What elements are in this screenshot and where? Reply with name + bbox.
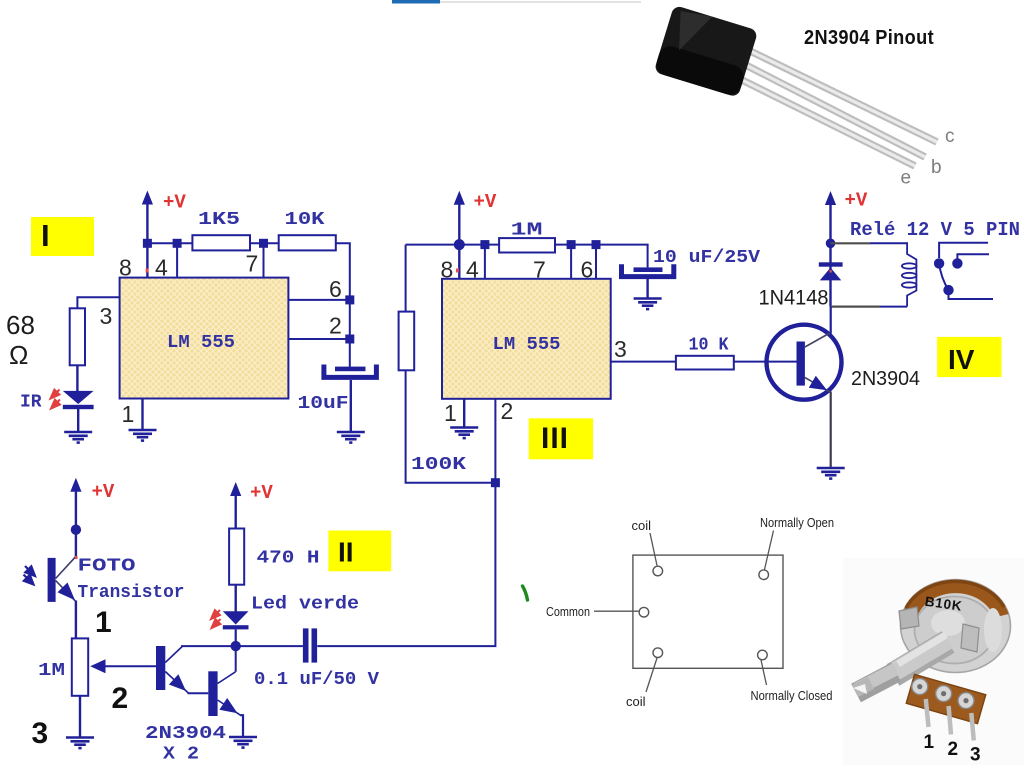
svg-text:10K: 10K [285,210,325,230]
svg-text:Relé 12 V 5 PIN: Relé 12 V 5 PIN [850,219,1020,241]
IR emission arrows [51,390,61,409]
label Normally Closed [751,660,833,703]
svg-text:1K5: 1K5 [198,210,240,230]
power +V section I [142,191,187,278]
svg-text:3: 3 [614,336,627,362]
wire corner to cap 10uF25V [647,245,649,268]
wire Q1 emitter to Q2 base [188,692,209,694]
relay coil bottom wire [831,306,908,308]
svg-text:+V: +V [163,192,186,214]
wire 1M to corner [555,244,649,246]
power +V section III [454,191,497,279]
label box IV [937,337,1001,377]
svg-text:4: 4 [466,257,479,283]
red mark pin8 I [146,269,149,273]
relay contacts [934,243,993,299]
label Normally Open [760,515,834,570]
wire cap to ground I [350,380,352,432]
svg-text:3: 3 [32,717,49,750]
svg-text:2: 2 [112,682,129,715]
svg-text:2N3904 Pinout: 2N3904 Pinout [804,27,934,49]
svg-text:3: 3 [100,303,113,329]
resistor 68 ohm [6,308,85,370]
svg-text:c: c [945,126,955,147]
svg-text:2: 2 [948,739,959,760]
relay coil [902,242,917,306]
transistor Q1 (darlington) [156,646,189,694]
node IV supply (round) [826,239,836,249]
svg-text:+V: +V [845,190,868,212]
relay pinout diagram [633,555,783,668]
svg-text:LM 555: LM 555 [493,335,561,355]
svg-text:III: III [541,422,569,455]
svg-text:Normally Open: Normally Open [760,515,834,530]
wire 470H to LED verde [234,585,236,612]
LED verde [223,595,359,630]
label box I [31,217,94,256]
power +V section IV [825,190,868,307]
relay hole coil bottom [653,648,663,658]
resistor 10 K [676,336,734,370]
label box III [529,418,593,459]
wire 1K5 to 10K [250,242,279,244]
op-amp U1 LM 555 [120,278,289,399]
svg-text:6: 6 [329,276,342,302]
capacitor 0.1 uF/50 V [254,628,379,690]
LED verde emission arrows [211,610,221,628]
ground Q-IV [817,468,845,479]
ground IR LED [64,432,92,443]
node pin2-100K junction [491,478,500,487]
node I-c (pin 7) [259,239,268,278]
wire pot to ground [79,696,81,737]
wire LED to ground [77,409,79,432]
svg-text:Normally Closed: Normally Closed [751,688,833,703]
svg-text:1: 1 [444,400,457,426]
svg-text:8: 8 [441,257,454,283]
relay coil top wire [831,242,908,244]
label Common [546,604,639,619]
svg-text:0.1 uF/50 V: 0.1 uF/50 V [254,670,379,690]
wire top rail I [147,242,192,244]
capacitor 10uF [298,365,377,415]
svg-text:470 H: 470 H [257,549,320,569]
node LED junction (round) [231,641,241,651]
svg-text:I: I [41,218,50,253]
node II supply (round) [71,525,81,535]
power +V section II left [70,478,115,557]
relay hole common [639,607,649,617]
svg-text:Common: Common [546,604,590,619]
wire Q1 collector rail [181,645,303,647]
node III-a (round) [454,239,465,250]
svg-text:4: 4 [155,255,168,281]
svg-text:coil: coil [626,694,646,709]
wire LED verde to node [235,629,237,646]
wire pin 3 III to 10K [611,361,676,363]
label coil bottom [626,658,657,709]
svg-text:7: 7 [533,257,546,283]
svg-text:+V: +V [250,482,273,504]
svg-text:6: 6 [581,257,594,283]
svg-text:2N3904: 2N3904 [145,724,226,744]
svg-text:+V: +V [92,481,115,503]
LED IR [20,391,94,413]
svg-text:X 2: X 2 [163,745,199,765]
svg-text:100K: 100K [411,455,466,475]
svg-text:8: 8 [119,255,132,281]
top toolbar bar [392,0,641,4]
resistor 470 H [229,529,319,585]
label coil top [632,518,658,566]
power +V section II right [230,482,273,529]
svg-text:1M: 1M [38,661,65,681]
wire 10K to pin6/2 column [336,243,350,366]
wire cap to ground III [646,279,648,298]
node I-b (pin 4) [173,239,182,278]
op-amp U2 LM 555 [442,279,611,399]
svg-text:2: 2 [329,313,342,339]
svg-text:1: 1 [924,732,935,753]
svg-text:II: II [338,537,354,568]
ground pin1 III [450,428,478,439]
wire collector Q-IV [830,307,832,334]
wire 10K to base Q4 [734,361,797,363]
wire FOTO emitter to pot [75,601,77,639]
svg-text:Transistor: Transistor [78,583,185,603]
light arrows into FOTO [24,566,36,585]
phototransistor FOTO [48,556,185,603]
svg-text:68: 68 [6,310,35,340]
transistor Q 2N3904 (IV) [767,325,921,400]
svg-text:LM 555: LM 555 [167,333,235,353]
svg-text:coil: coil [632,518,652,533]
svg-text:7: 7 [246,251,259,277]
wire 68ohm to LED [76,365,78,392]
svg-text:IV: IV [948,344,975,375]
svg-text:10 K: 10 K [689,336,729,356]
relay hole NO [759,570,769,580]
wire pin 3 I [77,297,119,308]
potentiometer B10K photo [843,558,1024,765]
svg-text:+V: +V [474,191,497,213]
relay hole coil top [653,566,663,576]
resistor 100K branch [399,245,496,483]
svg-text:2: 2 [501,398,514,424]
svg-text:1: 1 [122,401,135,427]
svg-text:3: 3 [970,745,981,766]
ground I cap [337,432,365,443]
wire Q2 emitter to ground [241,715,244,736]
green mark [523,586,528,600]
svg-text:e: e [901,168,912,189]
ground cap III [634,299,662,310]
svg-text:1N4148: 1N4148 [759,287,829,310]
wire pin 1 I [141,399,143,430]
diode 1N4148 [759,262,843,309]
red mark FOTO collector [75,556,78,559]
node III-b (pin 4) [480,240,489,279]
transistor Q2 (darlington) [145,671,241,764]
potentiometer 1M [38,638,88,695]
wire top rail III [406,244,500,246]
node III-d (pin 6) [592,240,601,279]
svg-text:10uF: 10uF [298,394,349,414]
node I-a [143,239,152,248]
resistor 1M [499,221,555,253]
resistor 1K5 [192,210,250,250]
capacitor 10 uF/25V [622,248,761,277]
ground pin1 I [129,430,157,441]
label box II [328,531,391,572]
svg-text:FOTO: FOTO [78,557,136,577]
svg-text:1: 1 [95,606,112,639]
2N3904 pinout photo [654,5,937,166]
wire Q2 collector [235,646,237,672]
ground Q2 [229,737,257,748]
svg-text:IR: IR [20,393,42,413]
resistor 10K [279,210,336,250]
wiper arrow wire [90,659,156,673]
svg-text:2N3904: 2N3904 [851,368,920,390]
svg-text:b: b [931,157,942,178]
svg-text:10 uF/25V: 10 uF/25V [653,248,760,268]
svg-text:Led verde: Led verde [251,595,359,615]
node pin 2 I [288,335,354,344]
ground pot [66,738,94,749]
node pin 6 I [288,295,354,304]
relay hole NC [758,650,768,660]
wire pin 1 III [463,399,465,427]
svg-text:1M: 1M [511,221,543,241]
red mark diode [830,270,832,273]
node III-c (pin 7) [567,240,576,279]
svg-text:Ω: Ω [9,340,28,370]
wire pin 2 III down [317,399,495,646]
wire emitter Q-IV to ground [830,392,832,468]
red mark pin8 III [456,269,459,273]
